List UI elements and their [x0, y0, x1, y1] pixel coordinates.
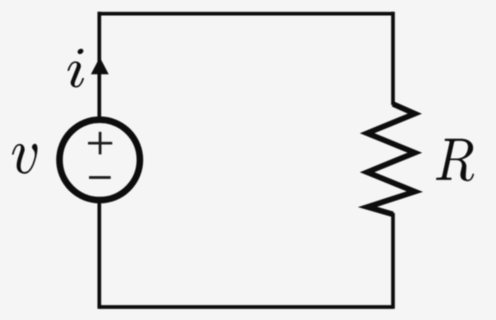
current arrow i	[91, 57, 109, 74]
voltage source V1 circle	[59, 120, 139, 200]
wire left upper	[97, 12, 101, 118]
label R	[436, 139, 474, 181]
label i	[68, 49, 85, 88]
wire left lower	[97, 202, 101, 309]
wire bottom	[99, 305, 393, 309]
voltage source plus sign	[88, 132, 112, 155]
wire right lower	[391, 213, 395, 309]
label v	[12, 144, 38, 174]
wire right upper	[391, 12, 395, 105]
wire top	[99, 12, 393, 16]
resistor R zigzag	[367, 104, 415, 214]
voltage source minus sign	[89, 176, 111, 179]
